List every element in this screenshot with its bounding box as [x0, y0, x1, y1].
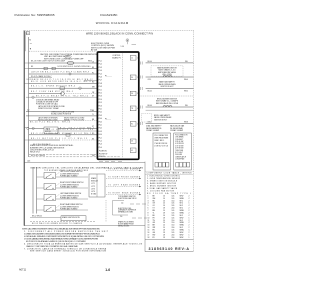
- svg-text:A0711: A0711: [19, 268, 27, 271]
- svg-text:L1 T1: L1 T1: [91, 183, 95, 185]
- svg-text:150: 150: [172, 220, 175, 222]
- svg-text:105: 105: [172, 210, 175, 212]
- svg-text:200: 200: [172, 227, 175, 229]
- svg-text:ELECTRODO DEL: ELECTRODO DEL: [118, 208, 132, 210]
- svg-text:SF-2: SF-2: [180, 203, 184, 205]
- corner terminal block: [26, 32, 29, 35]
- svg-text:2: 2: [189, 232, 190, 234]
- svg-text:SF-2: SF-2: [180, 200, 184, 202]
- svg-text:SEW: SEW: [180, 195, 184, 197]
- svg-text:P1-7: P1-7: [99, 80, 102, 82]
- svg-text:N GND: N GND: [91, 194, 97, 196]
- wire color table rows: [148, 195, 191, 239]
- svg-text:SEW: SEW: [180, 234, 184, 236]
- svg-text:2: 2: [137, 77, 138, 79]
- wire row: oven light: [29, 62, 97, 64]
- svg-text:P5-1: P5-1: [99, 137, 102, 139]
- svg-text:120VAC 3.4 AMP: 120VAC 3.4 AMP: [146, 129, 160, 132]
- svg-text:SEW: SEW: [180, 217, 184, 219]
- svg-text:105: 105: [172, 230, 175, 232]
- leader dashes SW4: [57, 205, 60, 208]
- svg-text:WIRE 120V/60HZ/L1/BLACK IN CON: WIRE 120V/60HZ/L1/BLACK IN CONN./CONNECT…: [86, 33, 153, 36]
- svg-text:4: 4: [148, 203, 149, 205]
- wire from marker A: [126, 42, 128, 45]
- svg-text:SF-2: SF-2: [180, 220, 184, 222]
- leader dashes SW2: [57, 183, 60, 186]
- svg-text:IGNITOR IS HOT: IGNITOR IS HOT: [160, 86, 173, 88]
- svg-text:105: 105: [172, 232, 175, 234]
- svg-text:8: 8: [148, 213, 149, 215]
- svg-text:14: 14: [163, 203, 165, 205]
- svg-text:14: 14: [163, 220, 165, 222]
- svg-text:18: 18: [163, 213, 165, 215]
- svg-text:CLOSES WHEN KNOB IS: CLOSES WHEN KNOB IS: [60, 195, 79, 197]
- svg-text:2: 2: [148, 198, 149, 200]
- latch cam switches: [27, 127, 29, 129]
- svg-text:P3-3: P3-3: [99, 115, 102, 117]
- svg-text:9 BU GND: 9 BU GND: [175, 154, 182, 156]
- SW1 note: [60, 170, 83, 177]
- diagram top border (dashed): [24, 30, 195, 32]
- dashed return line: [105, 200, 107, 222]
- svg-text:BK-14 GY-3 WH-30: BK-14 GY-3 WH-30: [31, 155, 45, 157]
- bake ignitor element: [163, 76, 172, 78]
- caution label block: [40, 53, 99, 60]
- svg-text:P24 BK RD: P24 BK RD: [99, 151, 108, 153]
- svg-text:1 2: 1 2: [131, 58, 133, 60]
- svg-text:18: 18: [163, 232, 165, 234]
- spark switch SW1: [44, 173, 56, 179]
- dashes right of rows: [29, 120, 70, 122]
- bake ignitor note (dashed box): [151, 66, 183, 76]
- wire row: door switch: [29, 68, 97, 70]
- svg-text:CLOSES WHEN KNOB IS: CLOSES WHEN KNOB IS: [60, 206, 79, 208]
- svg-text:FGGS2345K: FGGS2345K: [100, 13, 117, 17]
- svg-text:TO LEFT FRONT BURNER: TO LEFT FRONT BURNER: [108, 169, 141, 171]
- svg-text:P2-3: P2-3: [99, 96, 102, 98]
- svg-text:P2 - - - -: P2 - - - -: [105, 118, 111, 120]
- svg-text:BK: BK: [92, 67, 94, 69]
- svg-text:7 BN OVEN: 7 BN OVEN: [175, 150, 183, 152]
- svg-text:18: 18: [163, 230, 165, 232]
- svg-text:150: 150: [172, 225, 175, 227]
- svg-text:CLOSES WHEN KNOB IS: CLOSES WHEN KNOB IS: [60, 173, 79, 175]
- svg-text:2 WH N 3 RD DSI: 2 WH N 3 RD DSI: [154, 143, 167, 145]
- svg-text:BK-44: BK-44: [148, 105, 153, 107]
- svg-text:105: 105: [172, 195, 175, 197]
- wire row: spark module: [29, 87, 97, 89]
- ignitor note 2: [118, 208, 137, 214]
- svg-text:P25 WH GY: P25 WH GY: [99, 153, 107, 155]
- svg-text:IGNITOR IS HOT: IGNITOR IS HOT: [154, 120, 167, 122]
- svg-text:SRML: SRML: [180, 198, 185, 200]
- svg-text:4: 4: [137, 108, 138, 110]
- svg-text:BK-31 LOCK MOTOR SWITCH 18: BK-31 LOCK MOTOR SWITCH 18-6 N.C. WH-11: [31, 81, 91, 83]
- svg-text:BK-20 P-12 RD-4 N.O. WH: BK-20 P-12 RD-4 N.O. WH-16: [30, 121, 70, 123]
- svg-text:WITH OVEN DOOR CLOSED AND POWE: WITH OVEN DOOR CLOSED AND POWER OFF: [44, 57, 84, 60]
- svg-text:SEW: SEW: [180, 237, 184, 239]
- connector table box P13: [174, 133, 192, 170]
- latch motor box: [44, 127, 58, 133]
- svg-text:1: 1: [189, 203, 190, 205]
- svg-text:P4-3: P4-3: [99, 131, 102, 133]
- svg-text:L3 T3: L3 T3: [91, 188, 95, 190]
- svg-text:7. COOLING FAN MOTOR: 7. COOLING FAN MOTOR: [147, 190, 175, 193]
- svg-text:17: 17: [148, 234, 150, 236]
- wire row: cooling fan: [29, 134, 97, 136]
- diagram left border: [23, 31, 25, 226]
- svg-text:10: 10: [148, 217, 150, 219]
- svg-text:WH-26 GY-8: WH-26 GY-8: [30, 152, 40, 154]
- dashed arrows to legend: [106, 169, 141, 196]
- svg-text:120VAC 3.4 AMP: 120VAC 3.4 AMP: [170, 129, 184, 132]
- bus N vertical: [28, 37, 30, 157]
- inner rail: [25, 32, 27, 52]
- svg-text:TO RIGHT FRONT BURNER: TO RIGHT FRONT BURNER: [108, 177, 141, 179]
- svg-text:4 5: 4 5: [131, 150, 133, 152]
- latch switch note: [38, 116, 58, 121]
- svg-text:3 4: 3 4: [131, 77, 133, 79]
- svg-text:P26 OR: P26 OR: [99, 156, 105, 158]
- svg-text:2: 2: [189, 225, 190, 227]
- svg-text:P1-1: P1-1: [99, 61, 102, 63]
- svg-text:P3-2: P3-2: [99, 112, 102, 114]
- valve note column 2: [170, 125, 185, 133]
- svg-text:P3-1: P3-1: [99, 109, 102, 111]
- zone marker A circle: [126, 39, 129, 42]
- svg-text:P1: P1: [92, 72, 94, 74]
- svg-text:L4 T4: L4 T4: [91, 191, 95, 193]
- svg-text:P1-3: P1-3: [99, 67, 102, 69]
- svg-text:3 RD LF SW: 3 RD LF SW: [175, 141, 184, 143]
- svg-text:1: 1: [148, 195, 149, 197]
- svg-text:P4-4: P4-4: [99, 134, 102, 136]
- svg-text:1-6: 1-6: [105, 268, 110, 272]
- svg-text:L1: L1: [27, 33, 29, 35]
- svg-text:1: 1: [137, 58, 138, 60]
- svg-text:18: 18: [163, 208, 165, 210]
- svg-text:6 VT RR SW: 6 VT RR SW: [175, 148, 184, 150]
- lower bus lines: [32, 167, 34, 214]
- svg-text:6: 6: [148, 208, 149, 210]
- EOC interior dashed divider: [121, 54, 123, 159]
- SW4 note: [60, 203, 83, 210]
- leader dashes SW3: [57, 194, 60, 197]
- diagram right border (dashed): [193, 31, 195, 252]
- svg-text:VT: VT: [153, 208, 155, 210]
- svg-text:P5-4: P5-4: [99, 147, 102, 149]
- latch motor note: [38, 105, 65, 110]
- svg-text:DIRECTION ONLY 120VAC: DIRECTION ONLY 120VAC: [38, 107, 60, 110]
- svg-text:16: 16: [163, 195, 165, 197]
- svg-text:SRML: SRML: [180, 225, 185, 227]
- svg-text:105: 105: [172, 213, 175, 215]
- svg-text:9: 9: [148, 215, 149, 217]
- bottom wires of ignitor circuit: [30, 217, 61, 219]
- P13 pin cells: [176, 162, 190, 167]
- spark switch SW3: [44, 195, 56, 201]
- broil ignitor note: [156, 98, 179, 105]
- svg-text:5 10: 5 10: [121, 46, 124, 48]
- wire row: lock motor: [29, 82, 97, 84]
- svg-text:P5-2: P5-2: [99, 141, 102, 143]
- svg-text:16: 16: [148, 232, 150, 234]
- notes block: [22, 227, 143, 252]
- wire row: sensor: [26, 111, 97, 113]
- svg-text:BEFORE VALVE WILL OPEN: BEFORE VALVE WILL OPEN: [156, 102, 179, 105]
- svg-text:4 OR RF SW: 4 OR RF SW: [175, 143, 184, 145]
- svg-text:2: 2: [189, 213, 190, 215]
- svg-text:WIRING DIAGRAM: WIRING DIAGRAM: [96, 21, 129, 25]
- svg-text:18: 18: [92, 61, 94, 63]
- svg-text:5: 5: [148, 205, 149, 207]
- EOC board outline (highlighted): [97, 52, 138, 159]
- convection motor: [61, 92, 65, 96]
- wire row to bake ignitor: [146, 62, 194, 64]
- svg-text:SF-2: SF-2: [180, 227, 184, 229]
- ignitor note 3: [118, 221, 134, 228]
- P12 pin cells: [155, 162, 169, 167]
- svg-text:2: 2: [189, 195, 190, 197]
- svg-text:P1-5: P1-5: [99, 73, 102, 75]
- svg-text:MODULE: MODULE: [91, 181, 98, 183]
- svg-text:1: 1: [189, 217, 190, 219]
- svg-text:14: 14: [163, 227, 165, 229]
- svg-text:SEE SERVICE DATA SHEET 3185651: SEE SERVICE DATA SHEET 318565140 FOR MOR…: [30, 249, 107, 252]
- wire row: broil valve: [146, 106, 194, 108]
- svg-text:1-6: 1-6: [121, 202, 123, 204]
- dashed rail upper left: [29, 50, 97, 52]
- svg-text:YL: YL: [153, 213, 155, 215]
- svg-text:2: 2: [189, 208, 190, 210]
- svg-text:P3-4: P3-4: [99, 118, 102, 120]
- svg-text:L2 T2: L2 T2: [91, 186, 95, 188]
- svg-text:16: 16: [163, 200, 165, 202]
- svg-text:DOOR SWITCH N.O. SHOWN OPEN W: DOOR SWITCH N.O. SHOWN OPEN WH-5: [58, 66, 91, 68]
- SW2 note: [60, 181, 84, 188]
- svg-text:BOARD P1: BOARD P1: [112, 56, 121, 59]
- svg-text:SF-2: SF-2: [180, 205, 184, 207]
- EOC right terminal blocks: [130, 56, 136, 153]
- svg-text:RW: RW: [153, 234, 156, 236]
- svg-text:P1-8: P1-8: [99, 83, 102, 85]
- svg-text:2: 2: [189, 200, 190, 202]
- svg-text:18: 18: [163, 217, 165, 219]
- lower section bottom border: [24, 225, 145, 227]
- svg-text:5 GY LR SW: 5 GY LR SW: [175, 145, 184, 147]
- SW3 note: [60, 192, 82, 199]
- svg-text:2: 2: [189, 210, 190, 212]
- EOC pin column: [99, 61, 102, 149]
- connector table box P12: [153, 133, 171, 170]
- lower section top border: [24, 161, 145, 163]
- pin entry labels at EOC left edge: [92, 61, 95, 157]
- oven light lamp: [67, 61, 74, 64]
- svg-text:2: 2: [189, 220, 190, 222]
- svg-text:IN UNLOCKED POSITION: IN UNLOCKED POSITION: [51, 114, 72, 116]
- spark module block: [89, 174, 105, 197]
- svg-text:COMPONENT CODE TABLE - WIRING: COMPONENT CODE TABLE - WIRING: [147, 172, 193, 175]
- component code list: [147, 176, 181, 193]
- rev box bottom border: [145, 251, 193, 253]
- bus tick rows: [24, 63, 29, 140]
- svg-text:WH-8: WH-8: [184, 122, 188, 124]
- svg-text:14: 14: [163, 210, 165, 212]
- svg-text:105: 105: [172, 203, 175, 205]
- svg-text:WH: WH: [92, 155, 95, 157]
- svg-text:16: 16: [163, 215, 165, 217]
- ignitor note 1: [118, 196, 137, 200]
- gas valve note: [146, 125, 162, 133]
- svg-text:SRML: SRML: [180, 230, 185, 232]
- wire row: latch switch: [29, 73, 97, 75]
- svg-text:4 OR VLV 5 GY LK: 4 OR VLV 5 GY LK: [154, 145, 168, 147]
- wire row: valve return: [146, 123, 194, 125]
- svg-text:SRML: SRML: [180, 213, 185, 215]
- svg-text:SF-2: SF-2: [180, 208, 184, 210]
- svg-text:OR-3: OR-3: [148, 122, 152, 124]
- svg-text:4-0: 4-0: [27, 110, 29, 112]
- dashed separator: [140, 95, 194, 97]
- bus G stub: [30, 43, 32, 45]
- lower section divider: [144, 162, 146, 252]
- spark switch SW2: [44, 184, 56, 190]
- svg-text:P1-2: P1-2: [99, 64, 102, 66]
- svg-text:BK-11 MOTOR P-9 LO VT-: BK-11 MOTOR P-9 LO VT-1 WH-19: [31, 138, 87, 140]
- connector stubs right of EOC: [141, 62, 143, 126]
- svg-text:2 3: 2 3: [131, 141, 133, 143]
- rev box top border: [145, 239, 193, 241]
- svg-text:15: 15: [148, 230, 150, 232]
- svg-text:P1 - - - - -: P1 - - - - -: [105, 76, 112, 78]
- svg-text:318565140 REV:A: 318565140 REV:A: [149, 247, 190, 251]
- svg-text:SRML: SRML: [180, 210, 185, 212]
- svg-text:14: 14: [163, 198, 165, 200]
- svg-text:BN: BN: [92, 119, 94, 121]
- svg-text:SF-2: SF-2: [180, 215, 184, 217]
- svg-text:8 YL LIGHT: 8 YL LIGHT: [175, 152, 183, 154]
- svg-text:13: 13: [148, 225, 150, 227]
- svg-text:WILL OPEN: WILL OPEN: [162, 74, 172, 76]
- svg-text:2: 2: [189, 227, 190, 229]
- bake valve note: [158, 81, 176, 89]
- svg-text:105: 105: [172, 215, 175, 217]
- svg-text:P4-1: P4-1: [99, 125, 102, 127]
- svg-text:14: 14: [163, 225, 165, 227]
- svg-text:200: 200: [172, 234, 175, 236]
- svg-text:P3-5: P3-5: [99, 121, 102, 123]
- broil valve dashed box: [142, 114, 152, 122]
- EOC interior header text: [112, 55, 121, 59]
- svg-text:P2-1: P2-1: [99, 89, 102, 91]
- svg-text:12: 12: [148, 222, 150, 224]
- latch note block: [51, 111, 75, 116]
- svg-text:3: 3: [137, 93, 138, 95]
- svg-text:200: 200: [172, 208, 175, 210]
- svg-text:P4-2: P4-2: [99, 128, 102, 130]
- svg-text:16: 16: [163, 205, 165, 207]
- svg-text:105: 105: [172, 217, 175, 219]
- svg-text:105: 105: [172, 205, 175, 207]
- svg-text:7 8: 7 8: [131, 108, 133, 110]
- svg-text:WH-5: WH-5: [184, 90, 188, 92]
- svg-text:P5-3: P5-3: [99, 144, 102, 146]
- wire row: bake valve: [146, 76, 194, 78]
- svg-text:150: 150: [172, 200, 175, 202]
- svg-text:150: 150: [172, 222, 175, 224]
- svg-text:YL: YL: [92, 114, 94, 116]
- wire row: bottom rail: [29, 154, 97, 156]
- door switch contacts: [44, 67, 47, 70]
- svg-text:11: 11: [148, 220, 150, 222]
- svg-text:2-6: 2-6: [120, 216, 122, 218]
- svg-text:BK-6 UNLOCK GY-1 N.C. 1: BK-6 UNLOCK GY-1 N.C. 180: [47, 129, 93, 131]
- svg-text:18: 18: [163, 234, 165, 236]
- svg-text:GB: GB: [153, 232, 155, 234]
- relay note block: [36, 98, 60, 105]
- wire row: [45, 130, 97, 132]
- svg-text:18: 18: [163, 237, 165, 239]
- svg-text:VT: VT: [92, 126, 94, 128]
- svg-text:GY: GY: [92, 96, 94, 98]
- wire row secondary: [146, 109, 194, 111]
- wire row: motor dashed: [29, 139, 60, 141]
- svg-text:P2-6: P2-6: [99, 105, 102, 107]
- svg-text:OR-1: OR-1: [148, 79, 152, 81]
- svg-text:BK: BK: [92, 138, 94, 140]
- svg-text:P1-6: P1-6: [99, 77, 102, 79]
- svg-text:BK-52 WH-40: BK-52 WH-40: [32, 216, 42, 218]
- svg-text:2 WH NEUT: 2 WH NEUT: [175, 139, 183, 141]
- wire row: broil: [146, 88, 194, 90]
- spark switch SW4: [44, 206, 56, 212]
- below-EOC stub row: [99, 160, 122, 162]
- wire row: latch motor: [29, 127, 44, 129]
- svg-text:1: 1: [189, 234, 190, 236]
- svg-text:VIEW FROM WIRE: VIEW FROM WIRE: [154, 138, 168, 140]
- svg-text:14: 14: [148, 227, 150, 229]
- svg-text:1: 1: [189, 237, 190, 239]
- svg-text:5: 5: [137, 124, 138, 126]
- svg-text:P1-9: P1-9: [99, 86, 102, 88]
- wire row: convection fan: [29, 93, 62, 95]
- svg-text:CLOSES WHEN KNOB IS: CLOSES WHEN KNOB IS: [60, 184, 79, 186]
- svg-text:WH: WH: [92, 87, 95, 89]
- transformer note block: [30, 144, 74, 153]
- svg-text:SRML: SRML: [180, 222, 185, 224]
- svg-text:SIDE 1 BK L1: SIDE 1 BK L1: [154, 140, 164, 142]
- svg-text:P13 CONNECTOR: P13 CONNECTOR: [175, 134, 187, 136]
- label row 98: [26, 96, 97, 98]
- wire row: latch circuit: [26, 115, 97, 117]
- svg-text:A-6: A-6: [28, 159, 31, 162]
- svg-text:105: 105: [172, 198, 175, 200]
- svg-text:16: 16: [163, 222, 165, 224]
- svg-text:3: 3: [148, 200, 149, 202]
- svg-text:5 6: 5 6: [131, 93, 133, 95]
- svg-text:P12 CONNECTOR: P12 CONNECTOR: [154, 135, 168, 137]
- svg-text:SEW: SEW: [180, 232, 184, 234]
- svg-text:18: 18: [148, 237, 150, 239]
- svg-text:P1-4: P1-4: [99, 70, 102, 72]
- EOC bottom pin text: [99, 151, 108, 159]
- svg-text:BU: BU: [92, 110, 94, 112]
- svg-text:P2-2: P2-2: [99, 93, 102, 95]
- svg-text:BK-42: BK-42: [148, 90, 153, 92]
- svg-text:9 1: 9 1: [131, 124, 133, 126]
- svg-text:P2-5: P2-5: [99, 102, 102, 104]
- svg-text:200: 200: [172, 237, 175, 239]
